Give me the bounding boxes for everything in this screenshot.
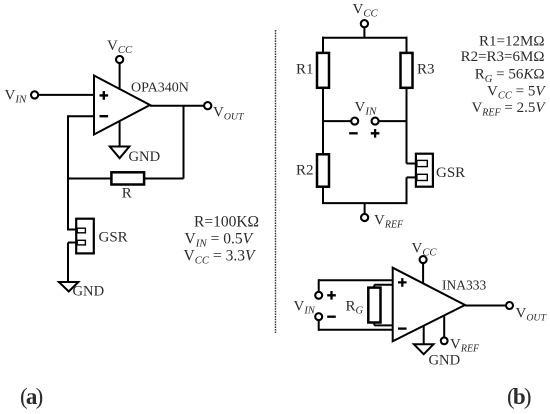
svg-text:GSR: GSR	[99, 230, 128, 246]
svg-text:GND: GND	[429, 353, 461, 369]
svg-text:GND: GND	[73, 284, 105, 300]
svg-text:R: R	[122, 186, 132, 202]
svg-text:(b): (b)	[507, 384, 531, 409]
svg-text:R2: R2	[296, 163, 314, 179]
svg-text:R1: R1	[296, 62, 314, 78]
svg-text:R2=R3=6MΩ: R2=R3=6MΩ	[461, 49, 545, 65]
svg-text:R=100KΩ: R=100KΩ	[194, 214, 259, 231]
svg-text:VCC = 5V: VCC = 5V	[487, 83, 546, 101]
svg-text:VCC = 3.3V: VCC = 3.3V	[184, 248, 256, 267]
svg-text:OPA340N: OPA340N	[131, 81, 189, 96]
svg-text:R1=12MΩ: R1=12MΩ	[479, 34, 544, 50]
svg-text:(a): (a)	[20, 384, 43, 409]
svg-text:INA333: INA333	[442, 278, 486, 293]
svg-text:GND: GND	[129, 149, 161, 165]
svg-text:GSR: GSR	[436, 165, 465, 181]
svg-text:R3: R3	[417, 62, 435, 78]
